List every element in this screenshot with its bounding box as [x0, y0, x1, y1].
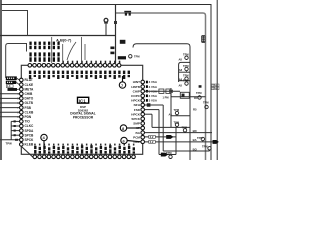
offpage ref circle 7: [119, 76, 125, 88]
wire row bd y132.6 long: [145, 132, 212, 134]
top pins: circles on top border: [28, 64, 121, 68]
wire top-left drop x27: [2, 11, 28, 36]
svg-text:CHIP: CHIP: [133, 89, 140, 93]
border frame outer right edge: [216, 0, 218, 160]
left input wires rows 4-9: [0, 94, 19, 117]
svg-text:TPM: TPM: [174, 121, 179, 125]
svg-text:2.2: 2.2: [150, 135, 154, 139]
svg-text:TPM: TPM: [182, 125, 187, 129]
label blob left of group border: [120, 40, 126, 44]
wire arrow2 feed y154.5: [159, 154, 176, 156]
wire row hpck2 right: [145, 113, 152, 115]
net stub labels on x115 vertical: [110, 47, 114, 50]
test point TP2: [185, 67, 188, 71]
test point TP12: [208, 147, 211, 151]
wire row nfh right: [145, 104, 164, 106]
svg-text:HINT: HINT: [133, 80, 140, 84]
label 14 on grey line: [124, 11, 131, 16]
top pin inside labels (vertical): [29, 71, 130, 79]
svg-text:DATO: DATO: [25, 97, 34, 101]
top pin number specks: [62, 61, 120, 63]
border frame left edge: [0, 0, 2, 160]
series resistor value 2.2 (1): [149, 135, 156, 138]
svg-text:SPCB: SPCB: [25, 133, 35, 137]
svg-text:TPM: TPM: [202, 145, 207, 149]
svg-text:TPW: TPW: [6, 142, 13, 146]
port tag box A(0-7): [6, 76, 17, 80]
test point TP4: [185, 82, 188, 86]
svg-text:SPCK: SPCK: [25, 138, 35, 142]
wire bus A,B(0-7) horizontal: [0, 35, 116, 37]
svg-text:TIO: TIO: [25, 120, 31, 124]
offpage ref circle 4: [41, 134, 47, 150]
svg-text:A8: A8: [179, 83, 183, 87]
svg-text:BA: BA: [193, 138, 197, 142]
offpage ref circle 6: [121, 137, 141, 143]
test point TP8: [175, 123, 178, 127]
capacitor C on hpck row: [169, 88, 173, 97]
resistor R box near 180,94: [180, 92, 189, 98]
svg-text:TPM: TPM: [183, 78, 188, 82]
net labels far right edge: [212, 84, 220, 87]
wire row pcm y136.9: [145, 136, 176, 138]
svg-text:KLEB: KLEB: [25, 143, 34, 147]
svg-text:BA: BA: [136, 131, 141, 135]
offpage ref circle 8: [120, 125, 140, 131]
svg-text:SPDA: SPDA: [25, 129, 35, 133]
test point TP6: [175, 111, 178, 116]
svg-text:FSD: FSD: [134, 108, 141, 112]
wire bus rip arc: [67, 42, 76, 60]
bottom pin number specks: [34, 144, 134, 146]
test point TP7: [205, 105, 208, 109]
left pins circles: [20, 78, 24, 146]
svg-text:FSB: FSB: [25, 106, 32, 110]
svg-text:TPM: TPM: [183, 73, 188, 77]
right outside +3V labels: [146, 80, 158, 102]
group bracket row y62.4: [179, 62, 190, 82]
vertical x176: [175, 127, 177, 154]
svg-text:TPM: TPM: [203, 101, 208, 105]
net symbol phi: [104, 18, 108, 35]
horizontal row y127.4: [152, 126, 190, 128]
node junction at 115,22: [114, 21, 117, 24]
offpage arrow right 1: [166, 135, 173, 139]
svg-text:TPM: TPM: [174, 108, 179, 112]
top outside net labels (vertical) columns: [29, 42, 59, 62]
svg-text:GLTB: GLTB: [25, 101, 34, 105]
svg-text:3 VSA: 3 VSA: [149, 94, 158, 98]
port tag box row3: [8, 88, 18, 91]
vertical x171: [170, 91, 172, 127]
test point TP0: [129, 55, 132, 58]
port tag box B(0-7): [6, 81, 16, 84]
svg-text:CLKC: CLKC: [25, 124, 35, 128]
svg-text:BD: BD: [193, 129, 197, 133]
vertical drop x152: [151, 114, 153, 127]
svg-text:3 VSA: 3 VSA: [149, 99, 158, 103]
bottom pin inside labels (vertical): [34, 145, 135, 153]
horizontal row y96.8 long: [171, 96, 206, 98]
svg-text:PDN: PDN: [25, 115, 32, 119]
svg-text:CLKE: CLKE: [25, 83, 34, 87]
wire vertical x115 from top rail to bus: [115, 5, 117, 64]
IC U1 body: [21, 65, 142, 154]
svg-text:TPM: TPM: [183, 53, 188, 57]
bottom pins circles: [33, 155, 135, 159]
group bracket row y72.2: [179, 71, 190, 73]
svg-text:PROCESSOR: PROCESSOR: [73, 115, 94, 119]
svg-text:TPM: TPM: [197, 136, 202, 140]
svg-text:HNTB: HNTB: [131, 85, 140, 89]
junction marks on left rows: [14, 120, 19, 140]
svg-text:NFH: NFH: [134, 103, 141, 107]
svg-text:2.2: 2.2: [150, 140, 154, 144]
wire row hpck right to cap: [145, 90, 180, 92]
offpage arrow far right: [213, 140, 219, 144]
wire drops to top pins: [52, 37, 85, 63]
sheet border grey rounded: [116, 13, 206, 160]
svg-text:A4: A4: [169, 112, 173, 116]
svg-text:HPCK: HPCK: [131, 99, 141, 103]
left feeder vertical x11: [0, 121, 19, 139]
offpage arrow right 2: [161, 153, 168, 157]
connector block black top right: [201, 35, 205, 42]
wires port boxes to pins 1-3: [16, 78, 19, 89]
test point TP3: [185, 77, 188, 81]
svg-text:RLAT: RLAT: [25, 78, 33, 82]
border frame top rail: [1, 5, 211, 161]
vertical drop x163: [162, 105, 164, 151]
svg-text:CLKB: CLKB: [25, 110, 35, 114]
svg-text:TPM: TPM: [196, 91, 201, 95]
group border rounded top right: [133, 44, 190, 160]
svg-text:CHIB: CHIB: [25, 92, 33, 96]
series resistor value 2.2 (2): [149, 140, 156, 143]
IC1 designator box: [78, 97, 89, 103]
svg-text:TP4: TP4: [212, 87, 217, 90]
junction square right row nfh: [147, 103, 151, 106]
svg-text:3 VSA: 3 VSA: [149, 80, 158, 84]
wire row y115.8 TP spur: [171, 115, 190, 117]
resistor boxes on +3V row: [159, 89, 164, 93]
svg-text:SMP: SMP: [133, 122, 140, 126]
svg-text:A8: A8: [179, 68, 183, 72]
wire rounded loop to port boxes: [6, 44, 27, 79]
svg-text:A8: A8: [179, 58, 183, 62]
svg-text:TPM: TPM: [134, 55, 139, 59]
svg-text:SPCK: SPCK: [131, 117, 140, 121]
svg-text:L4: L4: [7, 84, 11, 88]
wire chamfer diagonal bottom-left: [21, 146, 35, 158]
svg-text:R5: R5: [193, 108, 197, 112]
svg-text:HPCK: HPCK: [131, 112, 141, 116]
test point TP5: [198, 95, 201, 99]
right pin inside labels: [131, 80, 141, 144]
left pin inside labels: [25, 78, 35, 146]
wire row fsd right: [145, 109, 159, 111]
svg-text:3 VSA: 3 VSA: [149, 85, 158, 89]
svg-text:1 PM: 1 PM: [163, 95, 169, 99]
net label above pin col x119: [118, 56, 126, 59]
svg-text:PCM: PCM: [133, 135, 140, 139]
svg-text:META: META: [25, 87, 34, 91]
right side wiring: [133, 44, 213, 160]
test point TP9: [183, 129, 186, 133]
net label blob near frame: [199, 85, 202, 88]
test point TP10: [201, 137, 204, 142]
test point TP11: [169, 155, 172, 159]
vertical drop x159: [158, 110, 160, 155]
svg-text:COPC: COPC: [131, 94, 141, 98]
wire BO line y151: [163, 150, 209, 152]
svg-text:R1: R1: [194, 96, 198, 100]
svg-text:TPM: TPM: [183, 64, 188, 68]
test point TP1: [185, 56, 188, 60]
left pin numbers: [17, 93, 19, 119]
label L4: [6, 85, 13, 88]
right pins circles: [141, 80, 145, 143]
wire row lmp/ba y141.9 long: [145, 141, 213, 143]
svg-text:IC1: IC1: [79, 99, 86, 104]
